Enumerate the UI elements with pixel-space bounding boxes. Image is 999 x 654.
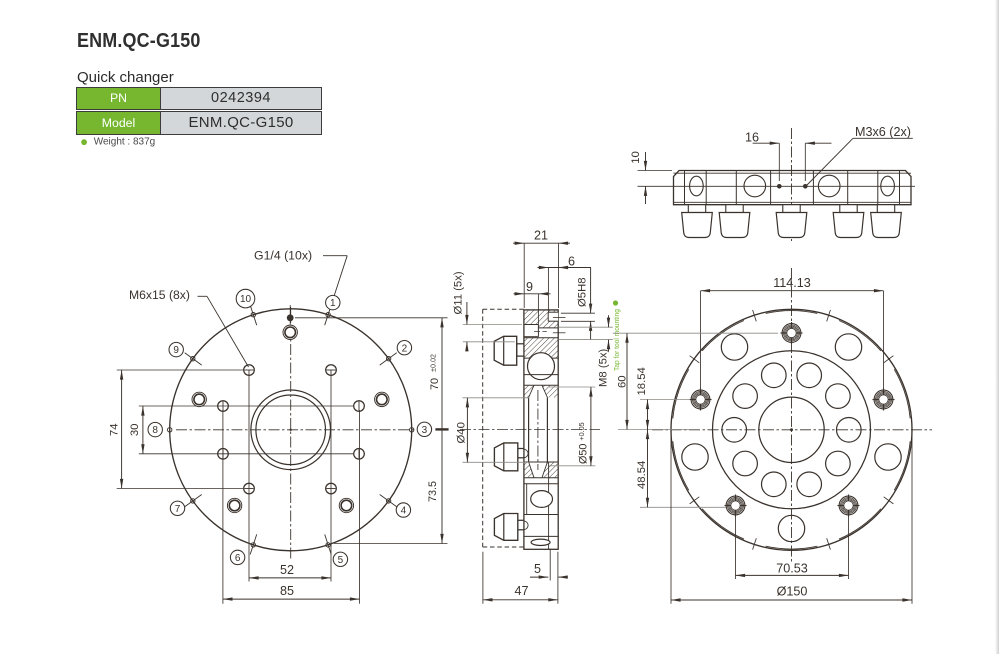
top view: bar outline <box>674 171 912 205</box>
left view: center bore circles <box>251 390 331 470</box>
right view: G1/4 ring holes (10x) <box>722 363 861 497</box>
left view: horizontal centerline <box>176 429 414 431</box>
svg-text:16: 16 <box>745 131 759 145</box>
title ENM.QC-G150 <box>77 29 201 53</box>
svg-text:5: 5 <box>534 562 541 576</box>
svg-text:6: 6 <box>235 553 241 564</box>
svg-text:6: 6 <box>568 255 575 269</box>
section: M8 tap slot <box>524 324 539 326</box>
right view: centerlines <box>652 429 932 431</box>
weight note <box>80 134 155 149</box>
svg-text:M8 (5x): M8 (5x) <box>598 348 610 387</box>
dim 9 <box>537 294 539 325</box>
dim 74 <box>117 369 243 371</box>
section: bore mouth clears <box>529 385 548 397</box>
svg-text:Ø150: Ø150 <box>777 585 808 599</box>
right view: clearance holes (5x) <box>682 334 901 542</box>
dim M8 (5x) <box>558 326 613 328</box>
subtitle Quick changer <box>77 69 174 86</box>
svg-text:M6x15 (8x): M6x15 (8x) <box>129 288 190 302</box>
dim 18.54 <box>640 399 690 401</box>
dim 52 <box>249 577 331 579</box>
section: horizontal feature lines <box>524 338 558 537</box>
svg-text:70.53: 70.53 <box>776 562 808 576</box>
left view: flange outline <box>170 309 412 551</box>
svg-text:8: 8 <box>152 425 158 436</box>
top view: centerline <box>791 128 793 241</box>
spec table <box>76 86 322 136</box>
svg-text:G1/4 (10x): G1/4 (10x) <box>254 249 312 263</box>
page right edge shading <box>995 0 999 654</box>
top view: holes in bar <box>690 176 704 196</box>
svg-text:5: 5 <box>338 555 344 566</box>
left view: M6 holes (8x) <box>218 365 365 494</box>
section: hatch bands <box>524 310 558 478</box>
left view: M8 counterbored holes (5x) <box>192 325 389 513</box>
section: pin notch <box>548 312 558 321</box>
svg-text:21: 21 <box>534 229 548 243</box>
svg-text:1: 1 <box>330 298 336 309</box>
section: step line under port <box>524 374 558 376</box>
dim 10 <box>638 170 673 172</box>
svg-text:7: 7 <box>175 504 181 515</box>
right view: boss circle <box>713 351 871 509</box>
dim 30 <box>142 406 144 454</box>
dim O11 (5x) <box>463 324 522 326</box>
section: dashed flange extent <box>483 308 524 310</box>
section: plug seat arcs <box>524 449 528 457</box>
green note: Tap for tool mounting <box>613 300 618 305</box>
svg-text:Ø40: Ø40 <box>456 422 468 443</box>
dim 70 +-0.02 and 73.5 <box>295 317 448 319</box>
section: G1/4 plug bottom <box>518 520 524 530</box>
section: cross port circles <box>528 353 555 380</box>
section: bore walls <box>528 398 530 463</box>
section: horizontal centerline <box>460 429 600 431</box>
svg-text:Tap for tool mounting: Tap for tool mounting <box>612 309 621 371</box>
svg-text:70 ±0.02: 70 ±0.02 <box>428 354 441 390</box>
svg-text:30: 30 <box>129 424 141 437</box>
section: G1/4 plug top <box>517 344 524 356</box>
left view: vertical centerline <box>290 307 292 560</box>
section: body outline <box>524 310 558 549</box>
left view: bolt pattern lines <box>139 370 353 582</box>
dim 114.13 <box>700 291 702 389</box>
dim 85 <box>222 410 224 604</box>
dim 16 <box>778 143 780 181</box>
right view: rim scallops <box>673 310 910 550</box>
right view: outer circle <box>671 309 912 550</box>
svg-text:47: 47 <box>514 584 528 598</box>
dim 6 <box>547 268 549 313</box>
svg-text:114.13: 114.13 <box>773 276 811 290</box>
left view: center point <box>290 429 292 431</box>
svg-text:Ø50 +0.05: Ø50 +0.05 <box>577 422 590 464</box>
svg-text:73.5: 73.5 <box>427 481 439 502</box>
right view: M8 screws (5x) <box>690 322 895 517</box>
top view: M3 holes <box>777 184 782 189</box>
section: vertical centerline <box>537 390 539 470</box>
svg-text:Ø5H8: Ø5H8 <box>577 277 589 307</box>
section: G1/4 plug middle <box>518 449 524 458</box>
top view: segment lines <box>685 171 900 205</box>
left view: G1/4 rim ports (10x) <box>168 305 414 554</box>
dim O40 <box>463 397 530 399</box>
svg-text:74: 74 <box>108 424 120 437</box>
leader M6x15 (8x) <box>198 295 208 297</box>
svg-text:18.54: 18.54 <box>636 367 648 395</box>
dim 5 <box>549 549 551 581</box>
leader G1/4 (10x) <box>323 255 347 257</box>
svg-text:M3x6 (2x): M3x6 (2x) <box>855 125 911 139</box>
top view: edge lines <box>674 172 912 174</box>
leader M3x6 (2x) <box>807 138 854 185</box>
svg-text:10: 10 <box>240 294 252 305</box>
dim 21 <box>523 243 525 308</box>
svg-text:52: 52 <box>280 563 294 577</box>
svg-text:3: 3 <box>422 425 428 436</box>
svg-text:85: 85 <box>280 584 294 598</box>
svg-text:4: 4 <box>401 506 407 517</box>
svg-text:10: 10 <box>630 151 642 164</box>
svg-text:Ø11 (5x): Ø11 (5x) <box>453 271 465 314</box>
left view: top port hole <box>289 305 291 327</box>
dim 70.53 <box>735 515 737 579</box>
svg-text:60: 60 <box>616 375 628 388</box>
svg-text:48.54: 48.54 <box>636 461 648 489</box>
top view: plugs (5x) <box>682 205 902 238</box>
svg-text:9: 9 <box>173 345 179 356</box>
svg-text:2: 2 <box>402 343 408 354</box>
right view: center bore <box>759 397 824 462</box>
dim 60 <box>613 332 778 334</box>
dim O5H8 <box>561 312 595 314</box>
dim 47 <box>482 552 484 604</box>
dim O50 +0.05 <box>549 386 595 388</box>
dim 48.54 <box>640 506 726 508</box>
dim O150 <box>670 434 672 604</box>
balloons 1-10 <box>148 289 432 566</box>
svg-text:9: 9 <box>526 280 533 294</box>
